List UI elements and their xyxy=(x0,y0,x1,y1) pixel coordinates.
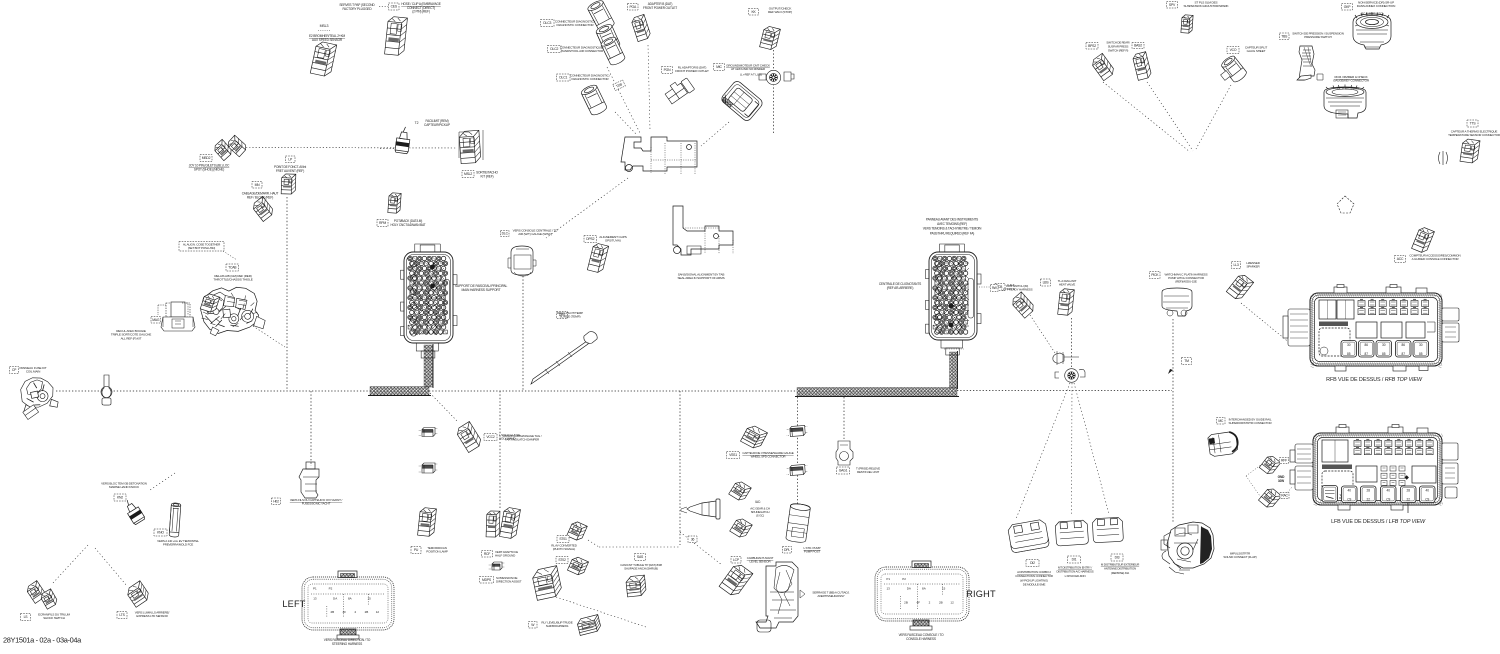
sensor KN2 (knock) xyxy=(121,497,145,525)
label TCAB box xyxy=(226,264,239,271)
console connector (large, rotated) xyxy=(720,79,764,122)
relay box RFB (top view) xyxy=(1310,293,1442,368)
label DPS2 box xyxy=(584,236,597,243)
svg-text:8A: 8A xyxy=(922,587,926,591)
label MSL2 box xyxy=(462,171,474,178)
wire leader STO to SAS xyxy=(588,540,599,547)
label PGN box xyxy=(662,67,673,74)
connector RCF edge xyxy=(486,511,500,537)
wire leader CES xyxy=(379,6,388,8)
svg-text:PU: PU xyxy=(414,548,419,552)
connector CP (trunk left end) xyxy=(17,374,60,417)
svg-text:FRONT POWER OUTLET: FRONT POWER OUTLET xyxy=(675,69,709,73)
connector CAN xyxy=(1010,292,1036,318)
svg-text:DI1: DI1 xyxy=(1072,558,1077,562)
svg-text:VCC2: VCC2 xyxy=(486,435,495,439)
label W box xyxy=(529,622,538,629)
svg-text:ALL REF (P) KIT: ALL REF (P) KIT xyxy=(121,336,142,340)
wire drop node GAG1 x844 xyxy=(843,397,845,439)
svg-text:4F: 4F xyxy=(343,610,347,614)
svg-text:PARTING/LATCH DAMPER: PARTING/LATCH DAMPER xyxy=(505,438,540,442)
svg-text:FACTORY PLUGGED: FACTORY PLUGGED xyxy=(342,7,372,11)
svg-text:ACC: ACC xyxy=(1397,257,1404,261)
svg-text:MIC: MIC xyxy=(716,65,722,69)
svg-text:LCP: LCP xyxy=(733,558,740,562)
svg-text:ST01: ST01 xyxy=(559,537,567,541)
svg-text:GPS/TUYAU: GPS/TUYAU xyxy=(605,239,621,243)
svg-text:REF / BLOCK (REF): REF / BLOCK (REF) xyxy=(247,195,273,199)
connector GAG1 xyxy=(836,441,853,465)
wire main trunk braided segment A xyxy=(370,387,429,396)
svg-text:(L +REF A T LUG): (L +REF A T LUG) xyxy=(740,73,762,77)
connector RFF xyxy=(1259,454,1280,476)
svg-text:GAUGE/KEY CONNECTOR: GAUGE/KEY CONNECTOR xyxy=(1333,79,1370,83)
svg-text:P1: P1 xyxy=(313,587,317,591)
svg-text:SEAL AREA IN SUPPORT OF ARMS: SEAL AREA IN SUPPORT OF ARMS xyxy=(678,276,725,280)
svg-text:C9: C9 xyxy=(1386,498,1390,502)
LFB bottom tabs xyxy=(1338,505,1403,510)
svg-text:BAS2: BAS2 xyxy=(1134,44,1142,48)
clip diamond xyxy=(1337,196,1354,213)
svg-text:DIRECTION ASSIST: DIRECTION ASSIST xyxy=(496,580,522,584)
connector SPV xyxy=(1181,15,1193,34)
svg-text:CAPTEUR/PICKUP: CAPTEUR/PICKUP xyxy=(424,123,450,127)
connector J2 RIGHT (steering multi-function) xyxy=(875,561,969,630)
svg-text:MDPS: MDPS xyxy=(482,578,492,582)
wire leader trunk to VCC2 xyxy=(430,393,458,422)
svg-text:4F: 4F xyxy=(916,601,920,605)
svg-text:GAG1: GAG1 xyxy=(839,469,848,473)
svg-text:LL3: LL3 xyxy=(1233,263,1238,267)
svg-text:(3C P-88 47-Y EC): (3C P-88 47-Y EC) xyxy=(1361,12,1384,16)
bracket air silencer support (lower) xyxy=(673,206,733,255)
fuel pump assembly body xyxy=(756,562,805,632)
svg-text:(PHOTO SIGNAL): (PHOTO SIGNAL) xyxy=(553,547,575,551)
wire drop node KK-MIC x773 xyxy=(773,50,775,133)
sensor DPS (temp probe) xyxy=(531,332,597,384)
svg-text:MSL2: MSL2 xyxy=(464,172,472,176)
svg-text:SPARKER: SPARKER xyxy=(1246,265,1260,269)
svg-text:(REF)MODU-15E: (REF)MODU-15E xyxy=(1175,280,1197,284)
svg-text:36: 36 xyxy=(691,537,695,541)
svg-text:HALF GROUND: HALF GROUND xyxy=(495,554,516,558)
svg-text:30: 30 xyxy=(1347,343,1351,347)
svg-text:LFB VUE DE DESSUS / LFB TOP V: LFB VUE DE DESSUS / LFB TOP VIEW xyxy=(1331,519,1426,525)
wire link MSD2 to MSL2 xyxy=(246,147,457,150)
relay box LFB (top view) xyxy=(1313,433,1443,506)
svg-text:TEMPERATURE SENSOR CONNECTOR: TEMPERATURE SENSOR CONNECTOR xyxy=(1448,133,1500,137)
svg-text:RFB VUE DE DESSUS / RFB TOP V: RFB VUE DE DESSUS / RFB TOP VIEW xyxy=(1326,377,1423,383)
label MC box xyxy=(1217,418,1226,425)
svg-text:HANDSTOOL AIR CONNECTOR: HANDSTOOL AIR CONNECTOR xyxy=(561,49,604,53)
connector MC xyxy=(1207,431,1239,457)
RFB bottom tabs xyxy=(1335,366,1428,371)
label GAG1 box xyxy=(837,467,850,474)
label GKP box xyxy=(1342,4,1353,11)
wire leader VCO fan xyxy=(1196,85,1231,149)
RFB mid relay sockets xyxy=(1356,322,1435,338)
svg-text:GAUG SHEET: GAUG SHEET xyxy=(1247,49,1266,53)
RFB label strip xyxy=(1319,322,1348,327)
svg-text:15: 15 xyxy=(367,596,371,600)
ground grommet on trunk xyxy=(1065,369,1079,383)
label LL3 box xyxy=(1232,262,1241,269)
svg-text:TTS: TTS xyxy=(1470,122,1477,126)
svg-text:P2: P2 xyxy=(329,587,333,591)
connector GKP round xyxy=(1353,12,1391,49)
svg-text:2B: 2B xyxy=(331,610,335,614)
label TTS box xyxy=(1467,120,1478,127)
svg-text:LBS: LBS xyxy=(1043,281,1050,285)
label MIC box xyxy=(714,64,725,71)
svg-text:MN: MN xyxy=(255,183,261,187)
svg-text:ST02: ST02 xyxy=(558,558,566,562)
wire leader BPS2 fan xyxy=(1103,82,1190,152)
label DI2 box xyxy=(1026,560,1039,567)
svg-text:SAS: SAS xyxy=(637,555,644,559)
label KN2 box xyxy=(114,494,126,501)
label MSD2 box xyxy=(200,155,212,162)
svg-text:87: 87 xyxy=(1364,352,1368,356)
svg-text:AUX SPEED SENSOR: AUX SPEED SENSOR xyxy=(312,38,343,42)
svg-text:87: 87 xyxy=(1401,352,1405,356)
svg-text:(SET BOT POSLUSN): (SET BOT POSLUSN) xyxy=(188,246,215,250)
label RAC box xyxy=(1280,493,1289,499)
label ST01 box xyxy=(557,536,569,543)
svg-text:AVEC TEMOINS (REF): AVEC TEMOINS (REF) xyxy=(937,222,967,226)
connector DLC3 cylinder pair xyxy=(586,0,615,33)
label CP box xyxy=(10,367,19,374)
label LBS box xyxy=(1041,279,1051,286)
label SPV box xyxy=(1167,2,1178,9)
svg-text:PANNEAU AVANT DES INSTRUMENTS: PANNEAU AVANT DES INSTRUMENTS xyxy=(926,218,978,222)
svg-text:EXPRESS LTD SENSOR: EXPRESS LTD SENSOR xyxy=(136,614,168,618)
svg-text:GKP: GKP xyxy=(1344,5,1351,9)
svg-text:40: 40 xyxy=(1425,489,1429,493)
ground grommet MIC xyxy=(766,70,780,84)
svg-text:DPL: DPL xyxy=(784,548,790,552)
op ECM connector U2 xyxy=(926,244,982,355)
wire leader to LS xyxy=(52,545,88,584)
svg-text:LEFT: LEFT xyxy=(282,599,305,609)
LFB left connector tabs xyxy=(1290,444,1313,490)
svg-text:FUSES/SONIC YACHT: FUSES/SONIC YACHT xyxy=(302,502,331,506)
small sensor SAN b xyxy=(419,463,438,473)
label KK box xyxy=(749,9,759,16)
svg-text:SAUPAGE ANCH (SHRUB): SAUPAGE ANCH (SHRUB) xyxy=(624,567,658,571)
label DLC3 box xyxy=(541,20,555,27)
svg-text:RPM: RPM xyxy=(379,221,386,225)
throttle body assembly xyxy=(199,284,267,337)
label TDB rotated box xyxy=(613,80,626,90)
svg-text:PASSTHRU REQUIRED (REF FA): PASSTHRU REQUIRED (REF FA) xyxy=(930,231,975,235)
svg-text:PREVERRA/MOLD FCE: PREVERRA/MOLD FCE xyxy=(163,543,193,547)
label CES box xyxy=(389,3,400,10)
svg-text:12: 12 xyxy=(950,601,954,605)
svg-text:MARINE HAND KNOCK: MARINE HAND KNOCK xyxy=(109,485,139,489)
svg-text:RIGHT: RIGHT xyxy=(966,589,996,599)
svg-text:VSS1: VSS1 xyxy=(729,453,737,457)
wire leader W harness diag xyxy=(556,597,646,627)
RFB left connector tab xyxy=(1283,309,1310,346)
RFB top tabs xyxy=(1334,285,1427,294)
svg-text:PGN: PGN xyxy=(664,68,671,72)
connector BAS2 xyxy=(1132,52,1152,81)
label VCO box xyxy=(1227,47,1239,54)
wire braided drop to ECM U2 xyxy=(950,352,958,388)
connector PU xyxy=(418,507,437,537)
wire leader bracket to DLC conn xyxy=(546,178,628,238)
label LS box xyxy=(21,614,31,621)
label PU box xyxy=(411,547,421,554)
svg-text:HOLY CNCT/AD/WAN BAT: HOLY CNCT/AD/WAN BAT xyxy=(391,223,426,227)
LFB mid relay socket xyxy=(1356,466,1377,482)
svg-text:13: 13 xyxy=(313,596,317,600)
svg-text:SONDE (TEMP): SONDE (TEMP) xyxy=(560,315,581,319)
injector nozzle xyxy=(681,499,720,519)
connector MN xyxy=(251,197,275,222)
label CB right of ECM U2 xyxy=(979,286,994,288)
svg-text:30: 30 xyxy=(1419,343,1423,347)
connector TTS xyxy=(1460,138,1480,163)
clamp T on trunk xyxy=(101,375,112,405)
connector RAC xyxy=(1258,486,1281,509)
svg-text:H02: H02 xyxy=(273,499,279,503)
wire leader DLC3 to bracket xyxy=(607,67,640,133)
svg-text:(3C P-88 G1-Y8C): (3C P-88 G1-Y8C) xyxy=(1337,87,1359,91)
label PICK box xyxy=(1150,272,1161,279)
svg-text:PUMP POST: PUMP POST xyxy=(804,550,821,554)
connector DLC (to console) xyxy=(508,246,536,276)
svg-text:TM: TM xyxy=(1184,359,1189,363)
connector DPS2 xyxy=(587,243,608,274)
wire drop node SAS x680 xyxy=(679,391,681,545)
label MDPS box xyxy=(480,577,494,584)
svg-text:RFF: RFF xyxy=(1281,459,1287,463)
label PGA box xyxy=(628,4,639,11)
throttle inner connector xyxy=(200,293,220,314)
svg-text:MC: MC xyxy=(1218,419,1224,423)
label LCP box xyxy=(731,557,741,564)
wire drop node LP x287 xyxy=(286,197,288,391)
small part above MDPS xyxy=(489,562,505,570)
connector MSL2 right xyxy=(459,130,481,163)
fuse near VSS1 upper xyxy=(786,425,808,436)
label DLC1 box xyxy=(557,74,571,81)
label KNO box xyxy=(154,529,167,536)
svg-text:15: 15 xyxy=(942,587,946,591)
connector W (big) xyxy=(531,566,563,601)
svg-text:T2: T2 xyxy=(415,121,419,125)
svg-text:28: 28 xyxy=(1406,489,1410,493)
label alignment clip note xyxy=(179,242,224,252)
wire leader BAS2 fan xyxy=(1147,82,1193,151)
svg-text:DIAGNOSTIC CONNECTOR: DIAGNOSTIC CONNECTOR xyxy=(572,77,610,81)
svg-text:8A: 8A xyxy=(348,596,352,600)
small sensor SAN a xyxy=(419,428,438,437)
connector DLC1 cylinder xyxy=(580,83,608,117)
svg-text:2B: 2B xyxy=(904,601,908,605)
svg-text:C9: C9 xyxy=(1347,498,1351,502)
LFB inner top-left relay xyxy=(1322,440,1348,462)
op ECM connector U1 xyxy=(401,244,458,358)
label ECM U2 under bracket xyxy=(944,348,964,350)
svg-text:KN2: KN2 xyxy=(117,496,123,500)
sensor T2 (spark plug probe) xyxy=(395,126,412,154)
wire fan grommet to DI2 xyxy=(1016,383,1070,519)
wire drop node DLC x523 xyxy=(522,276,524,391)
wire leader throttle body to node xyxy=(253,326,285,347)
wire drop node RCF x500 xyxy=(499,391,501,510)
svg-text:LEVEL SENSOR: LEVEL SENSOR xyxy=(750,560,772,564)
label CAN box xyxy=(991,285,999,292)
label LTS box xyxy=(117,612,127,619)
svg-text:SUSPENSION ADJUSTOR/SPARK: SUSPENSION ADJUSTOR/SPARK xyxy=(1184,4,1230,8)
svg-text:SWITCH (REF R): SWITCH (REF R) xyxy=(1108,49,1129,53)
svg-text:85: 85 xyxy=(1347,352,1351,356)
starter solenoid xyxy=(1161,522,1214,574)
svg-text:FRONT POWER OUTLET: FRONT POWER OUTLET xyxy=(643,6,677,10)
label VSS1 box xyxy=(727,452,740,459)
LFB mini fuse cluster xyxy=(1381,466,1387,471)
tiny node box xyxy=(688,536,697,543)
svg-text:POSITION LAMP: POSITION LAMP xyxy=(426,550,448,554)
wire main trunk left dashed segment xyxy=(56,390,370,392)
label TBS box xyxy=(1280,33,1290,40)
wire leader PICK to TM node xyxy=(1172,319,1174,356)
connector BPS2 xyxy=(1090,53,1116,80)
label DPL box xyxy=(783,547,792,554)
clamp above grommet xyxy=(1053,351,1079,365)
LFB big square xyxy=(1322,471,1353,498)
label DI1 box xyxy=(1068,556,1081,563)
RFB fuse pairs xyxy=(1358,301,1365,307)
svg-text:RCF: RCF xyxy=(484,552,490,556)
LFB label strip xyxy=(1322,465,1352,470)
svg-text:STEERING HARNESS: STEERING HARNESS xyxy=(332,642,362,646)
label SAS box xyxy=(635,554,646,561)
sensor TBS xyxy=(1297,46,1315,80)
arrow TM junction xyxy=(1168,369,1173,374)
svg-text:C9: C9 xyxy=(1425,498,1429,502)
label TM box xyxy=(1182,358,1192,365)
svg-text:DI3: DI3 xyxy=(1115,556,1120,560)
connector W mate xyxy=(576,615,601,636)
connector VSS1 xyxy=(740,423,767,450)
svg-text:P1: P1 xyxy=(886,577,890,581)
svg-text:AT GROUND NO MINDER: AT GROUND NO MINDER xyxy=(731,67,766,71)
svg-text:DPS2: DPS2 xyxy=(586,237,594,241)
wire drop node fuel pump x797 xyxy=(797,397,799,505)
connector PICK (cap) xyxy=(1162,288,1192,316)
svg-text:COIL MAIN: COIL MAIN xyxy=(26,370,40,374)
connector LP xyxy=(281,174,296,194)
svg-text:2B: 2B xyxy=(939,601,943,605)
svg-text:A GUIDED CONSOLE CONNECTOR: A GUIDED CONSOLE CONNECTOR xyxy=(1412,257,1460,261)
wire leader CAN to grommet xyxy=(1030,315,1061,362)
svg-text:(2 PIN) (REF): (2 PIN) (REF) xyxy=(412,10,430,14)
connector MSL3 xyxy=(310,41,336,77)
left fitting nut assembly xyxy=(158,302,195,331)
svg-text:L KP103 ED-KDN: L KP103 ED-KDN xyxy=(1065,574,1086,578)
svg-text:13: 13 xyxy=(886,587,890,591)
connector IAC lower xyxy=(730,517,753,540)
svg-text:DE MODULE-SME: DE MODULE-SME xyxy=(1023,583,1046,587)
connector SAS xyxy=(626,575,647,597)
connector DI3 xyxy=(1092,517,1123,543)
label ACC box xyxy=(1395,256,1406,263)
connector ST01 xyxy=(567,520,588,542)
svg-text:30: 30 xyxy=(1382,343,1386,347)
svg-text:RAC: RAC xyxy=(1281,494,1288,498)
svg-text:LEFT READY HARNESS: LEFT READY HARNESS xyxy=(1001,288,1032,292)
label RCF box xyxy=(482,551,493,558)
label RPM box xyxy=(377,220,388,227)
svg-text:22: 22 xyxy=(1366,498,1370,502)
svg-text:BPS2: BPS2 xyxy=(1088,44,1096,48)
svg-text:86: 86 xyxy=(1401,343,1405,347)
wire leader T2 sensor xyxy=(380,147,396,149)
svg-text:10W: 10W xyxy=(1278,479,1284,483)
connector DI1 xyxy=(1055,520,1089,546)
wire drop node HO2 x311 xyxy=(310,391,312,466)
RFB inner relays top-left xyxy=(1319,300,1354,319)
label ST02 box xyxy=(556,557,568,564)
svg-text:HEAT VALVE: HEAT VALVE xyxy=(1059,283,1075,287)
clip TTS xyxy=(1439,151,1448,165)
LFB top tabs xyxy=(1336,425,1428,434)
connector DLC2 cylinder xyxy=(600,35,626,66)
svg-text:REF WILO (STOP): REF WILO (STOP) xyxy=(768,10,792,14)
svg-text:22: 22 xyxy=(1406,498,1410,502)
svg-text:PGA: PGA xyxy=(629,5,636,9)
svg-text:28Y1501a - 02a - 03a-04a: 28Y1501a - 02a - 03a-04a xyxy=(3,636,82,645)
connector ACC xyxy=(1412,226,1435,254)
connector IAC upper xyxy=(729,480,752,503)
label DLC2 box xyxy=(548,46,562,53)
svg-text:AIR (W/T) GAUGE (W/SC): AIR (W/T) GAUGE (W/SC) xyxy=(518,232,552,236)
LFB pointer line xyxy=(1407,503,1409,513)
svg-text:SUPERIOR/STRTR CONNECTOR: SUPERIOR/STRTR CONNECTOR xyxy=(1229,421,1273,425)
svg-text:VERS TEMOINS & TACHYMETRE / TE: VERS TEMOINS & TACHYMETRE / TEMOIN xyxy=(923,227,982,231)
svg-text:85: 85 xyxy=(1382,352,1386,356)
LFB bottom relay row xyxy=(1322,486,1338,503)
svg-text:SOLND CONNECT (FLAP): SOLND CONNECT (FLAP) xyxy=(1223,555,1256,559)
connector J1 LEFT (steering multi-function) xyxy=(302,571,394,639)
fuse near VSS1 lower xyxy=(786,464,808,475)
wire drop node TM x1173 xyxy=(1172,357,1174,522)
svg-text:DLC3: DLC3 xyxy=(543,21,551,25)
svg-text:WHEEL SPD CONNECTOR: WHEEL SPD CONNECTOR xyxy=(751,455,787,459)
wire leader into KN2 xyxy=(150,473,175,490)
wire leader SAS node to LCP xyxy=(680,532,722,565)
svg-text:(S GC): (S GC) xyxy=(756,514,764,518)
svg-text:12: 12 xyxy=(376,610,380,614)
svg-text:SHIFB/DGPRESS: SHIFB/DGPRESS xyxy=(546,624,569,628)
wire leader DLC1 to bracket xyxy=(615,112,636,134)
svg-text:MSL3: MSL3 xyxy=(320,24,329,28)
connector VCC2 xyxy=(455,421,483,452)
svg-text:FRET AUVENT (REF): FRET AUVENT (REF) xyxy=(276,169,304,173)
connector VCO barrel xyxy=(1220,54,1248,84)
connector ignition coil left xyxy=(500,507,521,539)
svg-text:SHOCK SWITCH: SHOCK SWITCH xyxy=(43,616,65,620)
connector CES (oxygen sensor) xyxy=(385,16,408,56)
wire leader LL3 to fuse box RFB xyxy=(1241,303,1291,344)
svg-text:PRESSURE SWITCH: PRESSURE SWITCH xyxy=(1304,35,1331,39)
svg-text:MAIN HARNESS SUPPORT: MAIN HARNESS SUPPORT xyxy=(462,288,501,292)
wire fan grommet to DI1 xyxy=(1071,383,1074,516)
